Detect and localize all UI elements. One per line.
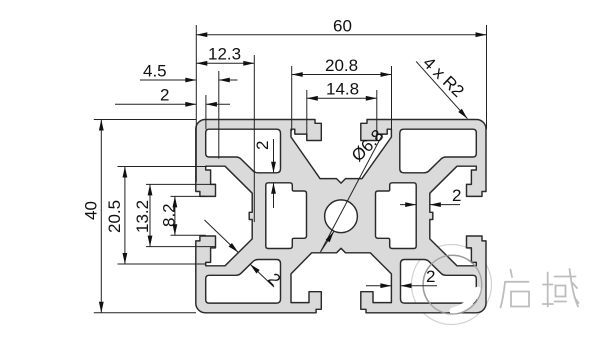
watermark character Qi (engraved strokes) [501,270,530,308]
leader 4 x R2 [416,61,467,118]
svg-text:40: 40 [82,201,101,220]
dimension 2 (inner right horizontal) [400,204,460,206]
svg-text:2: 2 [426,267,435,286]
svg-text:12.3: 12.3 [208,45,241,64]
dimension 4.5 [140,71,238,159]
dimension 2 (bottom right horizontal) [366,285,437,287]
dimension 40 (left) [94,120,196,313]
dimension 20.8 [292,66,392,131]
svg-text:8.2: 8.2 [160,203,179,227]
svg-text:4 x R2: 4 x R2 [419,53,468,101]
dimension 20.5 (left) [118,167,208,265]
svg-text:60: 60 [333,17,352,36]
dimension 60 (top) [196,25,486,182]
svg-text:2: 2 [253,141,272,150]
dimension 2 (inner top-left vertical) [273,139,275,208]
dimension 2 (top-left wall) [115,95,230,129]
dimension 8.2 (left) [171,196,206,235]
watermark swoosh (white) over profile corner [453,290,478,311]
dimension 12.3 [196,55,254,222]
dimension 14.8 [307,90,377,137]
svg-text:2: 2 [452,186,461,205]
dimension 2 (bottom-left diagonal) [205,220,275,287]
watermark character Yu (engraved strokes) [543,269,579,307]
svg-text:4.5: 4.5 [143,62,167,81]
svg-text:20.5: 20.5 [105,200,124,233]
dimension 13.2 (left) [146,184,216,246]
svg-text:20.8: 20.8 [325,56,358,75]
svg-text:13.2: 13.2 [133,200,152,233]
watermark logo circles [412,245,492,325]
profile body (gray extrusion cross-section, 4 T-slots, cavities, center hole) [196,120,486,313]
svg-text:2: 2 [160,86,169,105]
svg-text:14.8: 14.8 [326,80,359,99]
leader Ø6.8 (center hole) [321,134,384,252]
